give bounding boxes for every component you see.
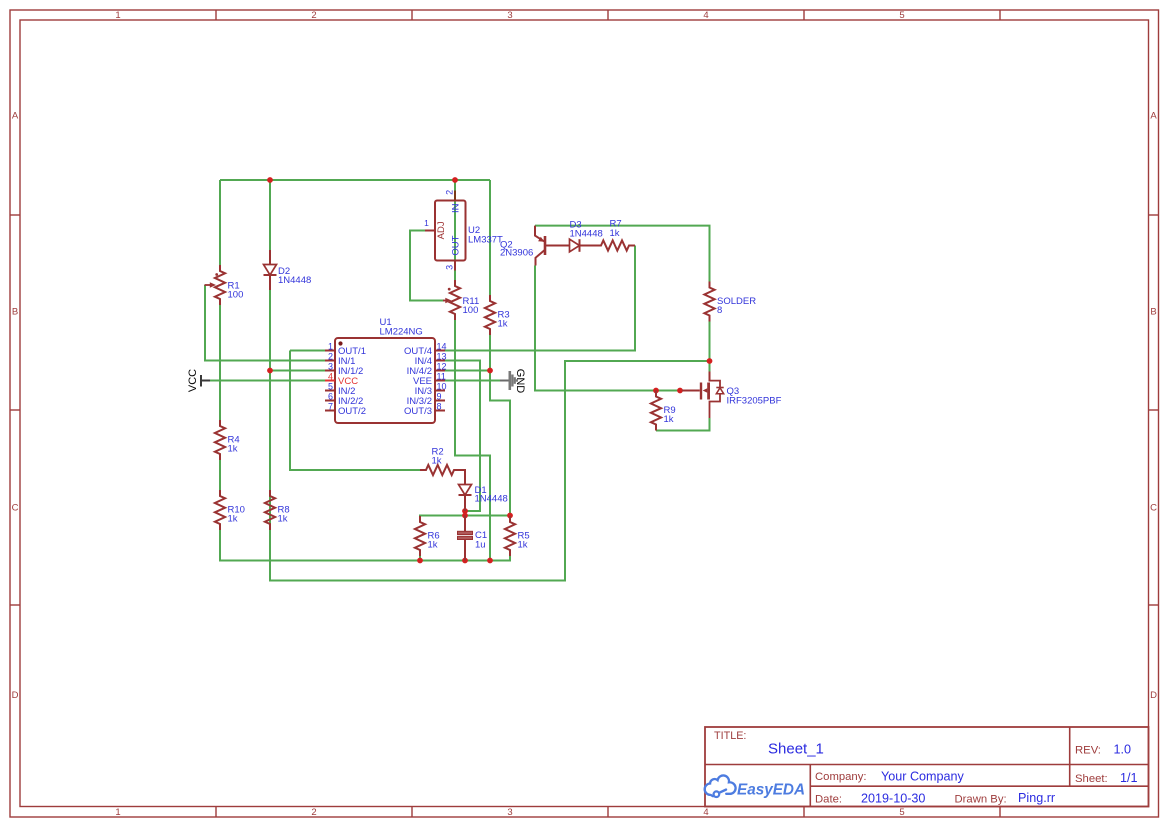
svg-text:1: 1 [115,10,120,21]
svg-text:1k: 1k [518,540,528,551]
wire R6 C1 R5 top line [420,515,510,518]
svg-text:4: 4 [703,10,708,21]
wire bottom rail R10 to R5 [220,530,510,561]
svg-text:OUT: OUT [451,235,462,255]
title block frame [705,727,1149,807]
svg-text:OUT/2: OUT/2 [338,406,366,417]
wire U2 ADJ to R11 wiper [410,231,444,301]
svg-text:1k: 1k [432,456,442,467]
wire VCC to U1 pin4 [210,380,325,382]
svg-text:2: 2 [311,807,316,818]
resistor R6 [415,516,440,556]
transistor Q2 2N3906 [500,226,555,266]
svg-text:2N3906: 2N3906 [500,248,533,259]
svg-text:3: 3 [445,265,455,270]
resistor R8 [265,490,290,530]
regulator U2 LM337T [424,190,503,271]
ruler numbers top [115,10,904,21]
svg-text:1N4448: 1N4448 [475,494,508,505]
wire R1 wiper to U1 pin2 [205,285,325,361]
svg-text:9: 9 [437,392,442,402]
resistor R9 [651,391,676,431]
svg-text:VCC: VCC [187,369,199,392]
wire D2 to pin3 node down to bottom loop [270,290,710,581]
wire Q2 emitter to Q3 gate [535,266,682,391]
svg-text:LM337T: LM337T [468,234,503,245]
svg-text:GND: GND [514,369,526,394]
svg-text:1N4448: 1N4448 [278,275,311,286]
svg-text:1k: 1k [228,444,238,455]
svg-text:7: 7 [328,402,333,412]
ruler numbers bottom [115,807,904,818]
svg-text:TITLE:: TITLE: [714,730,746,742]
junction node top rail / U2 IN [452,177,458,183]
junction node C1 top [462,513,468,519]
svg-text:5: 5 [328,382,333,392]
svg-text:4: 4 [703,807,708,818]
resistor R5 [505,516,530,556]
svg-text:B: B [12,307,18,318]
resistor R11 (pot) [443,280,479,320]
junction node D2 / pin3 [267,368,273,374]
svg-text:1.0: 1.0 [1114,743,1132,757]
svg-text:Ping.rr: Ping.rr [1018,791,1055,805]
wire R11 bottom jog to bottom rail [455,320,490,561]
resistor R3 [485,295,510,335]
svg-text:2019-10-30: 2019-10-30 [861,792,925,806]
svg-text:3: 3 [328,362,333,372]
junction node D1 bottom / pin13 [462,508,468,514]
ruler ticks bottom [216,807,1000,818]
wire R6 bottom stub [419,556,421,561]
resistor R7 [595,219,635,251]
wire D2 node to U1 pin3 [270,370,325,372]
ruler ticks right [1149,215,1159,605]
svg-text:A: A [12,111,19,122]
wire R4 to R10 [219,460,221,490]
svg-text:1: 1 [328,342,333,352]
svg-text:IN: IN [451,203,462,213]
op-amp U1 LM224NG [325,317,447,423]
svg-text:1N4448: 1N4448 [570,229,603,240]
svg-text:10: 10 [437,382,447,392]
svg-text:3: 3 [507,10,512,21]
svg-text:4: 4 [328,372,333,382]
svg-text:1: 1 [424,218,429,228]
svg-text:8: 8 [437,402,442,412]
junction node rail / R11 branch [487,558,493,564]
junction node C1 bottom [462,558,468,564]
svg-text:Your Company: Your Company [881,770,965,784]
junction node R9 top / gate [653,388,659,394]
ruler ticks top [216,10,1000,20]
svg-text:12: 12 [437,362,447,372]
ground GND [500,369,526,394]
ruler ticks left [10,215,20,605]
svg-text:C: C [12,503,19,514]
svg-text:8: 8 [717,305,722,316]
svg-text:B: B [1150,307,1156,318]
svg-text:6: 6 [328,392,333,402]
junction node R3 / pin12 [487,368,493,374]
wire top rail to D2 [269,180,271,250]
wire SOLDER bottom to Q3 drain [709,322,711,373]
wire U1 pin11 to GND [445,380,500,382]
svg-text:100: 100 [463,305,479,316]
svg-text:2: 2 [311,10,316,21]
svg-text:1u: 1u [475,540,486,551]
mosfet Q3 IRF3205PBF [682,372,782,419]
resistor R4 [215,420,240,460]
wire R3 bottom jog to R5 top [490,335,510,516]
wire top rail right to R3 [489,180,491,295]
wire Q2 collector rail to SOLDER [535,226,710,282]
svg-text:A: A [1150,111,1157,122]
resistor SOLDER [704,282,756,322]
svg-text:Drawn By:: Drawn By: [955,793,1007,805]
svg-text:Sheet_1: Sheet_1 [768,741,824,758]
diode D1 [459,470,508,511]
EasyEDA logo [705,775,805,798]
svg-text:C: C [1150,503,1157,514]
wire VCC top rail [220,179,490,181]
svg-text:D: D [1150,690,1157,701]
svg-text:1k: 1k [228,514,238,525]
svg-text:3: 3 [507,807,512,818]
svg-text:REV:: REV: [1075,745,1101,757]
svg-text:IRF3205PBF: IRF3205PBF [727,396,782,407]
svg-text:1/1: 1/1 [1120,771,1138,785]
junction node SOLDER bottom / drain [707,358,713,364]
wire U1 pin1 down to R2 [290,351,420,471]
svg-text:Date:: Date: [815,793,842,805]
resistor R2 [420,447,460,476]
wire R1 to R4 [219,305,221,420]
svg-text:LM224NG: LM224NG [380,327,423,338]
svg-text:Company:: Company: [815,771,867,783]
svg-text:1k: 1k [428,540,438,551]
svg-text:Sheet:: Sheet: [1075,773,1108,785]
resistor R1 (pot) [205,265,244,305]
diode D2 [264,250,312,290]
svg-text:100: 100 [228,289,244,300]
svg-text:1k: 1k [664,414,674,425]
diode D3 [555,219,603,252]
svg-text:SOLDER: SOLDER [717,296,756,307]
resistor R10 [215,490,245,530]
junction node R6 bottom [417,558,423,564]
svg-text:ADJ: ADJ [436,221,447,239]
wire U1 pin13 down to D1 bottom [445,361,480,512]
svg-text:1k: 1k [610,228,620,239]
ruler letters right [1150,111,1157,702]
svg-text:11: 11 [437,372,446,382]
svg-text:D: D [12,690,19,701]
svg-text:1k: 1k [278,514,288,525]
wire R9 bottom to Q3 source [656,418,710,431]
junction node top rail / D2 [267,177,273,183]
wire U1 pin12 to R3 node [445,370,490,372]
svg-text:5: 5 [899,10,904,21]
wire U2 IN through to R11 [454,180,456,280]
svg-text:1k: 1k [498,319,508,330]
svg-text:14: 14 [437,342,447,352]
svg-text:OUT/3: OUT/3 [404,406,432,417]
junction node R5 top [507,513,513,519]
capacitor C1 [458,516,488,561]
wire U1 pin14 to R7 [445,246,635,351]
power flag VCC [187,369,210,392]
ruler letters left [12,111,19,702]
svg-text:2: 2 [445,190,455,195]
svg-text:5: 5 [899,807,904,818]
svg-text:2: 2 [328,352,333,362]
wire left rail to R1 [219,180,221,265]
svg-text:1: 1 [115,807,120,818]
svg-text:EasyEDA: EasyEDA [737,782,805,799]
junction node gate wire [677,388,683,394]
svg-text:13: 13 [437,352,447,362]
wire U1 pin1 stub [290,350,325,352]
